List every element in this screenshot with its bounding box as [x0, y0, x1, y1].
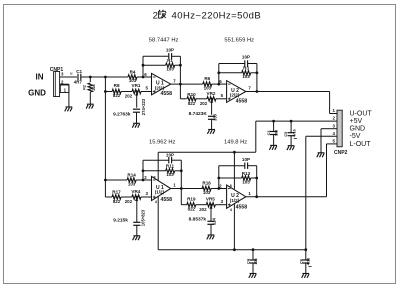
capacitor 274+223 to ground [136, 95, 138, 108]
pin 4 stub U1(1/2) to -5V [157, 196, 159, 249]
svg-text:149.8 Hz: 149.8 Hz [224, 140, 247, 146]
capacitor 105+823 to ground [136, 201, 138, 223]
wire CNP1 pin1 to ground [68, 84, 70, 107]
wire U-OUT vertical [329, 92, 331, 114]
wire R4 to U1 pin6 [137, 76, 152, 78]
svg-text:8.8537k: 8.8537k [189, 216, 207, 222]
wire bus to R14 [105, 179, 127, 181]
junction output A [179, 83, 182, 86]
wire feedback right vertical B [256, 64, 258, 92]
resistor R11 103 feedback C [143, 170, 166, 172]
capacitor C5 4/16 on +5V [290, 121, 292, 133]
capacitor 10P feedback D [244, 163, 246, 169]
svg-text:4558: 4558 [236, 99, 248, 105]
svg-text:333: 333 [212, 113, 217, 121]
svg-text:103: 103 [203, 190, 211, 195]
resistor R8 822 [112, 89, 121, 93]
wire drop to R10 row [179, 84, 181, 99]
svg-text:C3: C3 [267, 131, 271, 136]
wire VR1 to U1 pin5 [141, 91, 152, 93]
ground at CNP2 pin3 [318, 152, 325, 154]
svg-text:R3: R3 [243, 66, 249, 71]
svg-text:C1: C1 [76, 69, 82, 74]
svg-text:4558: 4558 [161, 91, 173, 97]
svg-text:R6: R6 [204, 76, 210, 81]
svg-text:9.2763k: 9.2763k [113, 112, 131, 118]
wire CNP1 pin3 to C1 [60, 76, 77, 78]
svg-text:-5V: -5V [350, 133, 361, 140]
svg-text:10P: 10P [166, 152, 174, 157]
potentiometer VR1 202 [132, 89, 141, 93]
junction feedback tap B [217, 83, 220, 86]
svg-text:VR5: VR5 [206, 197, 215, 202]
svg-text:VR4: VR4 [131, 189, 140, 194]
junction VR5 cap tap [210, 204, 212, 206]
potentiometer VR4 202 [132, 195, 141, 199]
junction R1 right [179, 64, 182, 67]
svg-text:202: 202 [199, 207, 207, 212]
wire R8 row [105, 91, 112, 93]
svg-text:58.7447 Hz: 58.7447 Hz [149, 37, 179, 43]
capacitor 10P feedback B [244, 60, 246, 66]
op-amp U1 (1/2) [152, 176, 171, 200]
junction feedback tap D [217, 187, 220, 190]
svg-text:R13: R13 [242, 171, 251, 176]
wire VR2 to U2 pin5 [216, 98, 227, 100]
ground at -5V cap1 [250, 273, 257, 275]
wire U1 output [171, 83, 203, 85]
capacitor C6 4/16 on -5V [305, 250, 307, 260]
wire R10 to VR2 [196, 98, 207, 100]
junction feedback tap A [142, 76, 145, 79]
wire feedback right vertical D [256, 166, 258, 197]
svg-text:15.962 Hz: 15.962 Hz [149, 140, 176, 146]
svg-text:u: u [70, 72, 72, 76]
wire feedback top branch C [143, 159, 169, 161]
capacitor 10P feedback C [168, 157, 170, 163]
svg-text:274+223: 274+223 [141, 98, 146, 115]
junction R11 left [142, 169, 145, 172]
ground at VR1 cap [133, 122, 140, 124]
junction -5V to U2(1/2) pin4 [233, 248, 236, 251]
junction bus to R8 [104, 90, 107, 93]
resistor R10 822 [187, 97, 196, 101]
wire feedback top branch D [219, 165, 245, 167]
resistor R4 103 [128, 75, 137, 79]
junction VR2 cap tap [211, 98, 213, 100]
connector CNP2 [337, 110, 342, 147]
resistor R2 input shunt [89, 77, 91, 82]
wire vertical input bus down to lower stages [104, 77, 106, 197]
wire feedback left vertical A [142, 56, 144, 77]
pin 8 stub U1(1/2) to +5V [157, 152, 159, 181]
svg-text:R2: R2 [83, 85, 87, 90]
junction +5V cap2 [290, 120, 293, 123]
junction R1 left [142, 64, 145, 67]
pin 1 of CNP1 (boxed) [60, 85, 69, 93]
svg-text:4558: 4558 [161, 197, 173, 203]
svg-text:202: 202 [125, 94, 133, 99]
svg-text:103: 103 [204, 85, 212, 90]
svg-text:R19: R19 [187, 197, 196, 202]
wire CNP2 GND pin3 [321, 128, 337, 130]
wire U1(1/2) output [171, 188, 203, 190]
svg-text:IN: IN [36, 73, 44, 82]
svg-text:4R7: 4R7 [74, 79, 83, 84]
capacitor 333 to ground [211, 102, 213, 114]
svg-text:9.215k: 9.215k [113, 218, 128, 224]
junction R13 left [217, 177, 220, 180]
wire R17 to VR4 [121, 196, 132, 198]
ground at VR2 cap [208, 129, 215, 131]
svg-text:202: 202 [200, 101, 208, 106]
ground at +5V cap2 [288, 145, 295, 147]
svg-text:103: 103 [166, 67, 174, 72]
capacitor 10P feedback A [168, 53, 170, 59]
svg-text:VR1: VR1 [132, 83, 141, 88]
svg-text:R4: R4 [130, 69, 136, 74]
wire feedback right vertical A [179, 56, 181, 84]
svg-text:8: 8 [153, 176, 155, 180]
wire VR4 to U1 pin3 [141, 196, 152, 198]
wire R17 row [105, 196, 112, 198]
wire R6 to U2 pin6 [212, 83, 227, 85]
svg-text:40Hz~220Hz=50dB: 40Hz~220Hz=50dB [172, 10, 262, 21]
ground at VR4 cap [133, 235, 140, 237]
svg-text:+5V: +5V [350, 118, 363, 125]
wire CNP1 pin2 [60, 83, 69, 85]
junction split node [104, 76, 107, 79]
junction R13 right [255, 177, 258, 180]
potentiometer VR5 202 [206, 203, 215, 207]
op-amp U1 (2/2) [152, 73, 171, 94]
svg-text:L-OUT: L-OUT [350, 141, 372, 148]
svg-text:R10: R10 [187, 92, 196, 97]
junction VR1 cap tap [136, 90, 138, 92]
svg-text:U-OUT: U-OUT [350, 110, 373, 117]
wire node to split [90, 76, 105, 78]
junction -5V cap1 [252, 248, 255, 251]
resistor R14 103 [127, 178, 136, 182]
potentiometer VR2 202 [207, 97, 216, 101]
pin 4 stub U2(1/2) to -5V [233, 204, 235, 250]
ground at R2 [87, 103, 94, 105]
svg-text:R16: R16 [202, 181, 211, 186]
wire R8 to VR1 [121, 91, 132, 93]
wire feedback left vertical D [218, 166, 220, 189]
svg-text:(1/2): (1/2) [230, 198, 240, 203]
svg-text:103: 103 [242, 180, 250, 185]
wire R19 to VR5 [196, 204, 207, 206]
svg-text:103: 103 [166, 172, 174, 177]
svg-text:8: 8 [230, 184, 232, 188]
svg-text:GND: GND [28, 89, 46, 98]
wire feedback left vertical B [218, 64, 220, 85]
junction R11 right [180, 169, 183, 172]
wire R16 to U2 pin2 [211, 188, 227, 190]
junction VR4 cap tap [136, 196, 138, 198]
capacitor 124 to ground [210, 208, 212, 221]
junction R3 right [256, 71, 259, 74]
op-amp U2 (2/2) [227, 81, 246, 103]
junction +5V cap1 [272, 120, 275, 123]
svg-text:105+823: 105+823 [140, 209, 145, 226]
junction output D [255, 195, 258, 198]
svg-text:R17: R17 [112, 189, 121, 194]
wire to R4 [105, 76, 128, 78]
wire VR5 to U2 pin3 [215, 204, 226, 206]
op-amp U2 (1/2) [227, 185, 246, 208]
wire C1 to node [81, 76, 90, 78]
resistor R3 103 feedback B [219, 72, 242, 74]
svg-text:4558: 4558 [236, 205, 248, 211]
wire +5V rail [256, 120, 337, 122]
wire feedback right vertical C [180, 160, 182, 188]
svg-text:202: 202 [125, 199, 133, 204]
svg-text:R8: R8 [114, 83, 120, 88]
svg-text:10P: 10P [242, 55, 250, 60]
wire feedback left vertical C [142, 160, 144, 180]
resistor R13 103 feedback D [219, 177, 242, 179]
svg-text:822: 822 [188, 101, 196, 106]
ground at VR5 cap [208, 234, 215, 236]
wire L-OUT vertical [326, 144, 328, 197]
junction bus to R14 [104, 179, 107, 182]
wire feedback top branch B [219, 63, 245, 65]
resistor R1 103 feedback A [143, 64, 166, 66]
svg-text:(2/2): (2/2) [155, 85, 165, 90]
svg-text:822: 822 [113, 93, 121, 98]
wire U2 output to U-OUT [246, 91, 330, 93]
junction output C [180, 187, 183, 190]
wire -5V rail [306, 135, 337, 137]
resistor R19 822 [187, 203, 196, 207]
svg-text:103: 103 [242, 74, 250, 79]
svg-text:CNP2: CNP2 [334, 150, 348, 156]
wire U2(1/2) output to L-OUT [246, 196, 327, 198]
svg-text:R14: R14 [127, 172, 136, 177]
ground at +5V cap1 [270, 144, 277, 146]
capacitor C3 103 on +5V [273, 121, 275, 131]
junction output B [256, 90, 259, 93]
junction -5V corner [304, 248, 307, 251]
svg-text:822: 822 [188, 207, 196, 212]
svg-text:103: 103 [128, 181, 136, 186]
svg-text:103: 103 [275, 130, 279, 136]
svg-text:(1/2): (1/2) [155, 190, 165, 195]
junction +5V to U2(1/2) pin8 [233, 151, 236, 154]
svg-text:(2/2): (2/2) [230, 93, 240, 98]
svg-text:GND: GND [350, 126, 366, 133]
svg-text:551.659 Hz: 551.659 Hz [224, 37, 254, 43]
wire to CNP2 pin5 [327, 143, 338, 145]
junction R3 left [217, 71, 220, 74]
svg-text:124: 124 [211, 217, 216, 225]
svg-text:4/16: 4/16 [307, 258, 311, 265]
svg-text:2: 2 [153, 10, 158, 21]
wire R14 to U1 pin2 [136, 179, 151, 181]
wire drop to R19 row [180, 189, 182, 205]
svg-text:4/16: 4/16 [292, 129, 296, 136]
resistor R6 103 [203, 82, 212, 86]
svg-text:10P: 10P [242, 157, 250, 162]
svg-text:VR2: VR2 [207, 91, 216, 96]
junction input node [89, 76, 92, 79]
svg-text:822: 822 [113, 199, 121, 204]
ground at CNP1 [66, 106, 73, 108]
capacitor C4 103 on -5V [252, 250, 254, 260]
svg-text:224: 224 [92, 83, 96, 90]
junction feedback tap C [142, 179, 145, 182]
ground at -5V cap2 [302, 273, 309, 275]
svg-text:R11: R11 [166, 163, 175, 168]
wire feedback top branch A [143, 55, 169, 57]
svg-text:8.7423K: 8.7423K [189, 111, 208, 117]
wire to CNP2 pin1 [330, 113, 337, 115]
resistor R17 822 [112, 195, 121, 199]
resistor R16 103 [202, 186, 211, 190]
svg-text:103: 103 [254, 258, 258, 264]
svg-text:R1: R1 [167, 58, 173, 63]
svg-text:10P: 10P [166, 47, 174, 52]
pin 8 stub U2(1/2) to +5V [233, 152, 235, 189]
svg-text:C5: C5 [284, 132, 288, 137]
svg-text:C6: C6 [299, 259, 303, 264]
